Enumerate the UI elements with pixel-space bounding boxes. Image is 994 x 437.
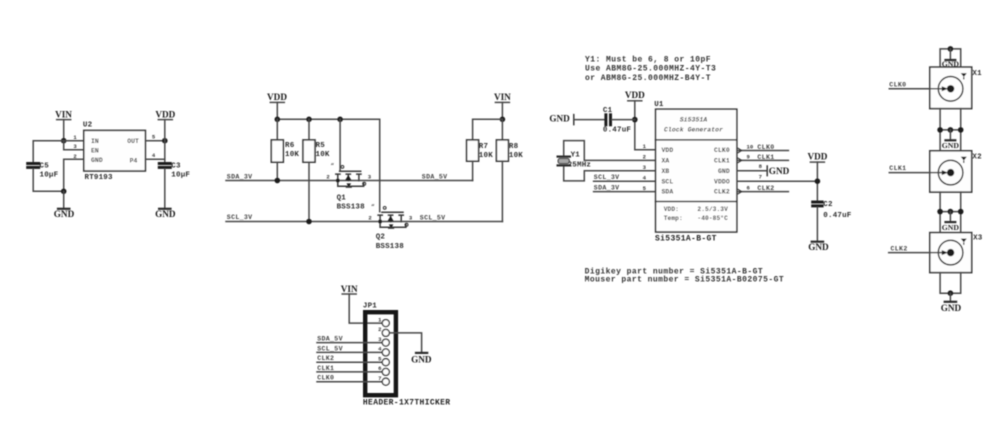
wire C1 to VDD — [612, 119, 635, 121]
wire U2 GND pin — [64, 159, 84, 191]
ground flag C1 — [549, 114, 573, 125]
svg-text:GND: GND — [411, 354, 432, 364]
ground flag pin8 — [767, 166, 789, 176]
divider top — [656, 139, 737, 141]
svg-text:CLK1: CLK1 — [317, 365, 334, 372]
pin number 10 and label CLK0 — [747, 144, 775, 151]
svg-text:EN: EN — [91, 148, 99, 155]
svg-text:GND: GND — [718, 168, 730, 175]
svg-text:GND: GND — [942, 223, 960, 232]
svg-text:BSS138: BSS138 — [337, 204, 366, 212]
wire SDA pin5 — [594, 191, 656, 193]
svg-text:-40-85°C: -40-85°C — [697, 215, 728, 222]
node OUT junction — [162, 138, 168, 144]
wire X3 shield bottom — [940, 273, 961, 294]
resistor R6 — [271, 140, 283, 162]
connector JP1 box — [365, 312, 396, 395]
svg-text:VDD: VDD — [662, 147, 674, 154]
node SCL R5 — [306, 219, 312, 225]
svg-text:P4: P4 — [130, 158, 138, 165]
svg-text:SCL: SCL — [662, 178, 674, 185]
svg-text:VDDO: VDDO — [714, 178, 730, 185]
node shield top — [948, 46, 954, 52]
svg-text:Q1: Q1 — [337, 194, 347, 202]
svg-text:X3: X3 — [973, 234, 983, 242]
svg-text:C2: C2 — [823, 201, 833, 209]
ground stub X1 top — [942, 49, 960, 68]
connector X2 — [930, 151, 972, 192]
svg-text:R6: R6 — [285, 142, 295, 150]
svg-text:CLK1: CLK1 — [757, 154, 774, 161]
svg-text:SCL_3V: SCL_3V — [227, 214, 253, 221]
svg-text:25MHz: 25MHz — [568, 161, 592, 169]
svg-text:CLK0: CLK0 — [714, 147, 730, 154]
wire CLK2 — [889, 252, 944, 254]
pin chevron 6 — [738, 189, 742, 194]
svg-text:10K: 10K — [285, 151, 299, 159]
wire to U2 pin 1 — [64, 140, 84, 142]
svg-text:SDA_3V: SDA_3V — [227, 173, 253, 180]
svg-text:GND: GND — [942, 141, 960, 150]
wire shield X1-X2 cross — [940, 129, 961, 131]
pin 5 circle — [382, 359, 389, 366]
wire R8 bottom — [501, 161, 503, 221]
wire SDA_3V — [226, 180, 338, 182]
svg-text:CLK2: CLK2 — [757, 185, 774, 192]
SECTION U1 — [549, 55, 851, 284]
connector X1 — [930, 67, 972, 109]
pin 2 circle — [382, 329, 389, 336]
pin chevron 9 — [738, 158, 742, 163]
capacitor C1 — [606, 113, 611, 126]
antenna icon X1 — [961, 73, 967, 79]
svg-text:SDA_5V: SDA_5V — [317, 335, 343, 342]
wire VDD drop — [276, 102, 278, 119]
svg-text:BSS138: BSS138 — [376, 243, 405, 251]
svg-text:GND: GND — [54, 209, 75, 219]
op-amp U2 box — [84, 130, 146, 171]
svg-text:or ABM8G-25.000MHZ-B4Y-T: or ABM8G-25.000MHZ-B4Y-T — [585, 74, 711, 83]
svg-text:SDA: SDA — [662, 189, 674, 196]
wire C2 bottom — [816, 207, 818, 241]
svg-text:HEADER-1X7THICKER: HEADER-1X7THICKER — [363, 399, 451, 408]
wire SCL_5V — [401, 221, 502, 223]
svg-text:CLK1: CLK1 — [714, 158, 730, 165]
svg-text:RT9193: RT9193 — [85, 174, 114, 182]
svg-text:7: 7 — [759, 173, 762, 180]
SECTION REGULATOR — [26, 109, 190, 219]
svg-text:Y1: Y1 — [571, 152, 581, 160]
wire P4 pin 4 — [145, 158, 164, 160]
wire EN tie — [64, 141, 84, 150]
svg-text:VDD: VDD — [155, 109, 175, 119]
wire C5 branch top — [33, 141, 64, 162]
supply VDD U1 — [625, 90, 645, 101]
svg-text:U2: U2 — [83, 121, 93, 129]
svg-text:VIN: VIN — [341, 284, 358, 294]
wire GND to C1 — [574, 119, 605, 121]
resistor R8 — [496, 140, 508, 161]
arrow CLK1 — [942, 170, 948, 175]
svg-text:Mouser part number = Si5351A-B: Mouser part number = Si5351A-B02075-GT — [585, 276, 785, 285]
node SDA R6 — [275, 178, 281, 184]
wire OUT pin 5 — [145, 140, 164, 142]
wire VDD vertical — [164, 120, 166, 162]
wire VIN vertical — [63, 120, 65, 141]
wire XA loop — [564, 141, 656, 161]
svg-text:10µF: 10µF — [40, 172, 59, 180]
ground right — [155, 209, 176, 219]
svg-text:Clock Generator: Clock Generator — [664, 127, 723, 134]
svg-text:Temp:: Temp: — [664, 215, 683, 222]
svg-text:“: “ — [331, 163, 335, 170]
svg-text:CLK1: CLK1 — [889, 165, 906, 172]
svg-text:GND: GND — [91, 157, 103, 164]
wire SCL pin4 — [594, 180, 656, 182]
svg-text:SCL_5V: SCL_5V — [317, 345, 343, 352]
svg-text:X2: X2 — [972, 154, 982, 162]
wire shield X1-X2 right — [960, 109, 962, 151]
svg-text:Y1: Must be 6, 8 or 10pF: Y1: Must be 6, 8 or 10pF — [585, 55, 711, 64]
svg-text:XB: XB — [662, 168, 670, 175]
svg-text:GND: GND — [769, 166, 790, 176]
svg-text:CLK0: CLK0 — [889, 82, 906, 89]
svg-text:VDD:: VDD: — [664, 206, 679, 213]
supply VIN mid — [494, 92, 511, 102]
wire C5 bottom — [33, 169, 64, 191]
wire R5 bottom — [308, 162, 310, 221]
svg-text:0.47uF: 0.47uF — [603, 126, 632, 134]
SECTION JP1 — [317, 284, 450, 408]
capacitor C3 — [158, 164, 172, 168]
node rail R6 — [275, 117, 281, 123]
node VIN junction — [61, 138, 67, 144]
SECTION LEVELSHIFT — [226, 92, 523, 251]
wire Q1 gate lead — [339, 119, 341, 170]
svg-text:10K: 10K — [509, 152, 523, 160]
wire pin3 SDA_5V — [317, 342, 382, 344]
svg-text:R7: R7 — [479, 143, 488, 151]
connector X3 — [930, 233, 972, 273]
svg-text:2.5/3.3V: 2.5/3.3V — [697, 206, 728, 213]
wire SDA_5V — [359, 180, 473, 182]
crystal Y1 — [557, 157, 572, 166]
pin number 6 and label CLK2 — [747, 185, 775, 192]
wire pin2 to GND — [389, 333, 421, 353]
ground left — [54, 209, 75, 219]
node cross mid — [948, 127, 954, 133]
wire VDD right vertical — [816, 162, 818, 200]
svg-text:GND: GND — [549, 114, 570, 124]
divider bottom — [656, 201, 737, 203]
node cross left — [937, 127, 943, 133]
pin number 9 and label CLK1 — [747, 153, 775, 160]
wire pin9 CLK1 — [737, 159, 788, 161]
svg-text:GND: GND — [155, 209, 176, 219]
wire VDD rail — [277, 119, 379, 212]
ground C2 — [808, 242, 829, 252]
resistor R7 — [467, 140, 479, 161]
node cross right — [958, 127, 964, 133]
attr Temp row — [664, 215, 728, 222]
svg-text:10µF: 10µF — [171, 172, 190, 180]
wire to GND — [63, 191, 65, 209]
svg-text:“: “ — [371, 204, 375, 211]
node GND junction — [61, 189, 67, 195]
node C1 junction — [632, 117, 638, 123]
svg-text:U1: U1 — [654, 101, 664, 109]
svg-text:10: 10 — [747, 144, 754, 151]
wire pin7 VDDO — [737, 180, 817, 182]
svg-text:XA: XA — [662, 158, 670, 165]
pin chevron 10 — [738, 148, 742, 153]
svg-text:R8: R8 — [509, 143, 519, 151]
antenna icon X3 — [961, 239, 967, 245]
ground JP1 — [411, 353, 432, 365]
svg-text:SDA_3V: SDA_3V — [594, 185, 620, 192]
svg-text:X1: X1 — [972, 70, 982, 78]
svg-text:IN: IN — [91, 138, 99, 145]
node VIN rail — [500, 117, 506, 123]
wire SCL_3V — [226, 221, 380, 223]
arrow CLK0 — [942, 86, 948, 91]
svg-text:CLK0: CLK0 — [317, 375, 334, 382]
svg-text:VDD: VDD — [625, 90, 645, 100]
svg-text:CLK2: CLK2 — [317, 355, 334, 362]
wire R7 bottom — [472, 161, 474, 180]
pin 1 circle — [382, 320, 389, 327]
svg-text:R5: R5 — [316, 142, 326, 150]
wire shield X2-X3 cross — [940, 211, 961, 213]
wire R8 top — [501, 119, 503, 140]
node shield bottom — [948, 290, 954, 296]
node rail Q1 gate — [337, 117, 343, 123]
svg-text:7: 7 — [378, 375, 381, 382]
supply VIN — [55, 109, 72, 119]
svg-text:CLK2: CLK2 — [891, 245, 908, 252]
svg-text:CLK2: CLK2 — [714, 189, 730, 196]
capacitor C5 — [26, 164, 40, 168]
ground stub X2 top — [942, 130, 960, 150]
supply VDD — [155, 109, 175, 119]
node cross2 left — [937, 209, 943, 215]
pin 4 circle — [382, 349, 389, 356]
wire shield X2-X3 right — [960, 192, 962, 233]
wire X1 shield top — [940, 49, 961, 67]
svg-text:SDA_5V: SDA_5V — [422, 174, 448, 181]
wire CLK0 — [889, 88, 943, 90]
attr VDD row — [664, 206, 728, 213]
svg-text:CLK0: CLK0 — [757, 144, 774, 151]
node rail R5 — [306, 117, 312, 123]
pin 7 circle — [382, 378, 389, 385]
svg-text:10K: 10K — [479, 152, 493, 160]
capacitor C2 — [811, 202, 823, 206]
wire R7 top link — [473, 119, 503, 140]
node cross2 mid — [948, 209, 954, 215]
svg-text:C5: C5 — [40, 163, 50, 171]
svg-text:VDD: VDD — [807, 152, 827, 162]
svg-text:SCL_5V: SCL_5V — [420, 215, 446, 222]
svg-text:Si5351A: Si5351A — [680, 117, 708, 124]
wire pin4 SCL_5V — [317, 351, 382, 353]
wire R6 top — [276, 119, 278, 140]
pin 3 circle — [382, 339, 389, 346]
wire XB loop — [564, 166, 656, 181]
wire C3 bottom — [164, 169, 166, 209]
svg-text:Use ABM8G-25.000MHZ-4Y-T3: Use ABM8G-25.000MHZ-4Y-T3 — [585, 65, 716, 74]
wire pin5 CLK2 — [317, 361, 382, 363]
svg-text:JP1: JP1 — [363, 302, 377, 310]
svg-text:VIN: VIN — [494, 92, 511, 102]
pin 6 circle — [382, 368, 389, 375]
supply VDD mid — [267, 92, 287, 102]
svg-text:C1: C1 — [603, 107, 613, 115]
wire R6 bottom — [276, 162, 278, 180]
svg-text:GND: GND — [808, 242, 829, 252]
wire VIN to pin1 — [349, 294, 382, 323]
svg-text:10K: 10K — [316, 151, 330, 159]
svg-text:Q2: Q2 — [376, 234, 386, 242]
wire VDD to pin1 — [635, 101, 656, 150]
resistor R5 — [303, 140, 315, 162]
wire pin10 CLK0 — [737, 150, 788, 152]
antenna icon X2 — [961, 157, 967, 163]
SECTION CONNECTORS — [889, 46, 983, 313]
ground X3 bottom — [941, 293, 962, 313]
transistor Q1 — [336, 166, 366, 188]
svg-text:SCL_3V: SCL_3V — [594, 174, 620, 181]
arrow CLK2 — [942, 250, 948, 255]
wire pin8 GND — [737, 170, 767, 172]
IC U1 box — [656, 109, 737, 232]
node VDDO junction — [815, 178, 821, 184]
svg-text:GND: GND — [941, 303, 962, 313]
transistor Q2 — [378, 207, 408, 229]
wire pin6 CLK1 — [317, 371, 382, 373]
wire pin7 CLK0 — [317, 381, 382, 383]
node cross2 right — [958, 209, 964, 215]
supply VIN header — [341, 284, 358, 294]
wire R5 top — [308, 119, 310, 140]
svg-text:C3: C3 — [171, 163, 181, 171]
wire CLK1 — [889, 172, 943, 174]
svg-text:VIN: VIN — [55, 109, 72, 119]
wire shield X2-X3 left — [939, 192, 941, 233]
supply VDD right — [807, 152, 827, 163]
svg-text:0.47uF: 0.47uF — [823, 212, 852, 220]
svg-text:Si5351A-B-GT: Si5351A-B-GT — [655, 235, 717, 244]
wire pin6 CLK2 — [737, 191, 788, 193]
ground stub X3 top — [942, 212, 960, 232]
svg-text:VDD: VDD — [267, 92, 287, 102]
wire shield X1-X2 left — [939, 109, 941, 151]
wire VIN drop — [501, 102, 503, 119]
svg-text:OUT: OUT — [127, 138, 139, 145]
